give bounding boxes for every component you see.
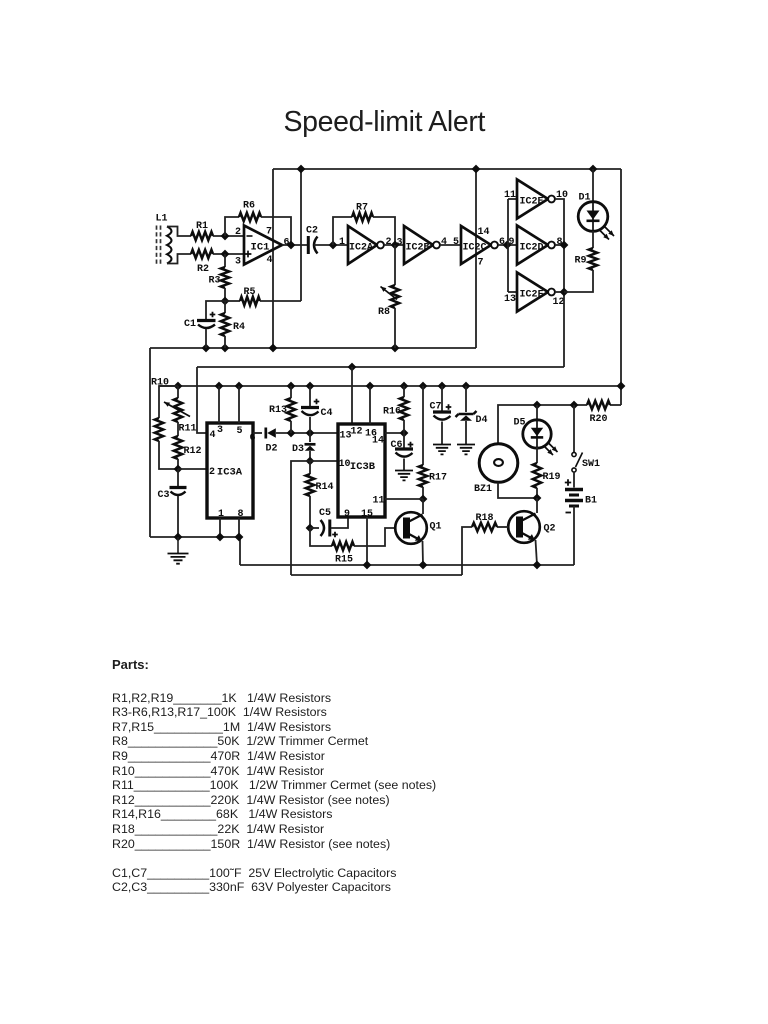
wire right supply bus down to R20 bbox=[620, 169, 622, 405]
node IC3A pin5 bbox=[235, 382, 244, 391]
svg-text:D4: D4 bbox=[475, 415, 487, 426]
polarity + of C4 bbox=[314, 399, 320, 405]
resistor R14 bbox=[306, 474, 314, 496]
svg-text:R7: R7 bbox=[356, 202, 368, 213]
node C5/R14/R15 bbox=[306, 524, 315, 533]
light arrow 2 of D5 bbox=[549, 444, 558, 453]
node IC1 pin6 output bbox=[287, 241, 296, 250]
svg-text:2: 2 bbox=[235, 227, 241, 238]
trimmer R8 bbox=[391, 285, 399, 308]
wire collector of Q1 bbox=[422, 499, 424, 514]
capacitor C2 bbox=[307, 236, 310, 254]
wire IC3A pin6 to D2 bbox=[253, 432, 262, 434]
svg-text:R4: R4 bbox=[233, 322, 245, 333]
wire R10 to R12 bottom node bbox=[159, 441, 178, 469]
wire bus corner to R20 bbox=[610, 404, 621, 406]
svg-text:3: 3 bbox=[235, 256, 241, 267]
node R11 top bbox=[174, 382, 183, 391]
node D4 top bbox=[462, 382, 471, 391]
wire R9 to pin12 node bbox=[564, 270, 593, 292]
node IC1 pin4/ground rail bbox=[269, 344, 278, 353]
svg-text:7: 7 bbox=[266, 226, 272, 237]
capacitor C7 bbox=[433, 410, 451, 413]
wire IC2B output to IC2C input bbox=[440, 244, 461, 246]
wire emitter of Q1 to ground rail bbox=[422, 541, 425, 565]
wire node to C5 bbox=[310, 527, 319, 529]
svg-text:Q2: Q2 bbox=[543, 523, 555, 534]
parts list line bbox=[112, 778, 436, 792]
svg-text:R9: R9 bbox=[574, 255, 586, 266]
ground below C6 bbox=[395, 471, 413, 481]
wire R12 to node bbox=[177, 459, 179, 469]
wire node down to R8 bbox=[394, 245, 396, 285]
wire Q2 base to R18 bbox=[497, 526, 508, 528]
node IC3A pin3 bbox=[215, 382, 224, 391]
wire R2 to IC1 pin3 bbox=[213, 253, 244, 255]
wire R16 down bbox=[403, 420, 405, 433]
svg-text:IC3B: IC3B bbox=[350, 461, 376, 473]
inverter IC2E bbox=[517, 180, 548, 219]
inverter IC2C bbox=[461, 226, 491, 264]
svg-text:11: 11 bbox=[372, 495, 384, 506]
node R13 bottom bbox=[287, 429, 296, 438]
output bubble of IC2E bbox=[548, 196, 555, 203]
wire rail to R16 bbox=[403, 386, 405, 397]
wire node to R5 bbox=[225, 300, 240, 302]
wire L1 bottom to R2 bbox=[167, 254, 191, 264]
svg-text:2: 2 bbox=[385, 237, 391, 248]
svg-text:C5: C5 bbox=[319, 508, 331, 519]
svg-text:6: 6 bbox=[249, 433, 255, 444]
node C3/ground bbox=[174, 533, 183, 542]
wire IC3A pin1 to ground rail bbox=[219, 518, 221, 537]
svg-text:D1: D1 bbox=[578, 192, 590, 203]
wire to IC3B pin12 bbox=[351, 367, 353, 424]
wire node to SW1 bbox=[573, 405, 575, 452]
svg-text:BZ1: BZ1 bbox=[474, 484, 492, 495]
parts list line bbox=[112, 764, 324, 778]
node IC1 pin3 junction bbox=[221, 250, 230, 259]
output bubble of IC2F bbox=[548, 289, 555, 296]
transistor Q1 bbox=[395, 512, 427, 544]
wire D5 to R19 bbox=[536, 447, 538, 463]
svg-text:4: 4 bbox=[441, 237, 447, 248]
svg-text:3: 3 bbox=[396, 237, 402, 248]
wire R13 down bbox=[290, 421, 292, 433]
inverting input minus sign of IC1 bbox=[247, 235, 253, 237]
wire rail to R10 bbox=[159, 386, 178, 418]
wire to IC2E input bbox=[508, 198, 517, 200]
svg-text:IC2E: IC2E bbox=[519, 196, 543, 207]
svg-text:14: 14 bbox=[372, 435, 384, 446]
diode D3 bbox=[305, 443, 316, 446]
node R4/ground rail bbox=[221, 344, 230, 353]
svg-text:C3: C3 bbox=[157, 490, 169, 501]
wire timer rail to IC3A pin4 bbox=[197, 367, 207, 433]
svg-text:Q1: Q1 bbox=[429, 521, 441, 532]
node Q2 emitter/ground rail bbox=[533, 561, 542, 570]
resistor R4 bbox=[221, 313, 229, 336]
wire D4 to ground bbox=[465, 421, 467, 444]
svg-text:R17: R17 bbox=[429, 472, 447, 483]
node R8/ground rail bbox=[391, 344, 400, 353]
parts list line bbox=[112, 734, 368, 748]
node bottom signal rail bbox=[291, 574, 462, 576]
wire pin2 up to R6 bbox=[225, 217, 239, 236]
wire C4 down bbox=[309, 417, 311, 433]
wiper arrow of R11 bbox=[164, 402, 190, 417]
svg-text:R5: R5 bbox=[243, 287, 255, 298]
wire C6 to ground bbox=[403, 459, 405, 471]
wire R15 to Q1 base bbox=[354, 528, 396, 546]
capacitor C6 bbox=[395, 447, 413, 450]
svg-text:4: 4 bbox=[266, 255, 272, 266]
wire D3 to pin10 node bbox=[309, 451, 311, 461]
resistor R7 bbox=[352, 213, 373, 221]
resistor R19 bbox=[533, 463, 541, 488]
output bubble of IC2B bbox=[433, 242, 440, 249]
svg-text:4: 4 bbox=[209, 430, 215, 441]
parts list line bbox=[112, 880, 391, 894]
svg-text:R11: R11 bbox=[178, 423, 196, 434]
wire R6 to IC1 output bbox=[261, 217, 291, 245]
polarity - of B1 bbox=[566, 512, 572, 514]
buzzer BZ1 bbox=[479, 444, 518, 483]
wire R1 to IC1 pin2 bbox=[213, 235, 244, 237]
wire IC3B pin14 to R16/C6 bbox=[385, 432, 404, 434]
wire IC3B pin15 to ground rail bbox=[366, 517, 368, 565]
svg-text:R20: R20 bbox=[589, 414, 607, 425]
node D3/R14/IC3B pin10 bbox=[306, 457, 315, 466]
resistor R16 bbox=[400, 397, 408, 420]
svg-text:B1: B1 bbox=[585, 495, 597, 506]
resistor R5 bbox=[240, 297, 260, 305]
polarity + of B1 bbox=[565, 479, 571, 485]
wire node to C6 bbox=[403, 433, 405, 448]
node IC3B pin16 bbox=[366, 382, 375, 391]
wire node to D3 bbox=[309, 433, 311, 442]
svg-text:R6: R6 bbox=[243, 200, 255, 211]
wire collector of Q2 bbox=[536, 498, 538, 513]
parts list line bbox=[112, 691, 331, 705]
wire V+ to R5 bbox=[300, 169, 302, 301]
inverter IC2D bbox=[517, 226, 548, 265]
svg-text:12: 12 bbox=[350, 426, 362, 437]
wire IC2C output to IC2D input bbox=[498, 244, 517, 246]
node R3/R4/R5/C1 bbox=[221, 297, 230, 306]
parts list line bbox=[112, 720, 331, 734]
capacitor C1 bbox=[197, 319, 216, 322]
wire IC3A pin8 to ground rail bbox=[238, 518, 240, 537]
wire paralleled inverter inputs bbox=[507, 199, 509, 292]
wire rail to C4 bbox=[309, 386, 311, 406]
resistor R17 bbox=[419, 465, 427, 487]
svg-text:IC2F: IC2F bbox=[519, 289, 543, 300]
svg-text:C6: C6 bbox=[390, 440, 402, 451]
wire node to IC3B pin10 bbox=[310, 460, 338, 462]
output bubble of IC2C bbox=[491, 242, 498, 249]
resistor R15 bbox=[332, 542, 354, 550]
node R17/IC3B pin11/Q1 collector bbox=[419, 495, 428, 504]
wire R14 to C5 node bbox=[309, 496, 311, 528]
trimmer R11 bbox=[174, 398, 182, 422]
node V+/R5 junction bbox=[297, 165, 306, 174]
wire R8 to ground rail bbox=[394, 308, 396, 348]
svg-text:D3: D3 bbox=[292, 444, 304, 455]
wire left ground bus bbox=[149, 348, 151, 537]
node IC3A ground rail bbox=[150, 537, 240, 565]
wire C7 to ground bbox=[441, 422, 443, 445]
svg-text:C7: C7 bbox=[429, 401, 441, 412]
ground below C7 bbox=[433, 445, 451, 455]
polarity + of C1 bbox=[210, 312, 216, 318]
wire R11 to R12 bbox=[177, 422, 179, 436]
svg-text:R3: R3 bbox=[208, 275, 220, 286]
wire emitter of Q2 to ground rail bbox=[536, 540, 538, 565]
wire node to D5 bbox=[536, 405, 538, 420]
svg-text:R13: R13 bbox=[269, 405, 287, 416]
wire R7 to IC2A output bbox=[373, 217, 395, 245]
svg-text:R19: R19 bbox=[542, 472, 560, 483]
wire node to R4 bbox=[224, 301, 226, 313]
node timer rail/IC3B pin12 bbox=[348, 363, 357, 372]
node R12/C3/IC3A pin2 bbox=[174, 465, 183, 474]
wire R5 to V+ branch bbox=[260, 300, 301, 302]
parts list line bbox=[112, 822, 324, 836]
svg-text:R8: R8 bbox=[378, 307, 390, 318]
svg-text:D2: D2 bbox=[265, 443, 277, 454]
wire C1 to ground rail bbox=[205, 329, 207, 348]
node pin15/ground rail bbox=[363, 561, 372, 570]
wire IC1 pin7/pin4 supply line bbox=[272, 169, 274, 348]
svg-text:L1: L1 bbox=[155, 213, 167, 224]
parts list line bbox=[112, 705, 327, 719]
node timer top rail bbox=[197, 366, 564, 368]
svg-text:5: 5 bbox=[236, 426, 242, 437]
title Speed-limit Alert bbox=[284, 106, 486, 139]
wiper arrow of R8 bbox=[381, 287, 398, 300]
resistor R18 bbox=[472, 523, 497, 531]
wire D2 to IC3B pin13 bbox=[276, 432, 338, 434]
wire node to C3 bbox=[177, 469, 179, 487]
svg-text:7: 7 bbox=[477, 257, 483, 268]
svg-text:R18: R18 bbox=[475, 513, 493, 524]
svg-text:R14: R14 bbox=[315, 482, 333, 493]
resistor R6 bbox=[239, 213, 261, 221]
battery B1 bbox=[565, 488, 583, 491]
wire node to IC3A pin2 bbox=[178, 468, 207, 470]
wire rail to R17 bbox=[422, 386, 424, 465]
svg-text:IC3A: IC3A bbox=[217, 467, 243, 479]
IC3A timer bbox=[207, 423, 253, 518]
wire IC2F output bbox=[555, 291, 564, 293]
wire rail to C7 bbox=[441, 386, 443, 411]
node pin1/ground bbox=[216, 533, 225, 542]
svg-text:2: 2 bbox=[209, 467, 215, 478]
wire V+ to D1 bbox=[592, 169, 594, 202]
wire D1 to R9 bbox=[592, 231, 594, 248]
wire R3 to R4/R5 node bbox=[224, 288, 226, 301]
wire to IC2F input bbox=[508, 291, 517, 293]
resistor R13 bbox=[287, 398, 295, 421]
node Q1 emitter/ground rail bbox=[419, 561, 428, 570]
wire IC2D output bbox=[555, 244, 564, 246]
transistor Q2 bbox=[508, 511, 540, 543]
svg-text:3: 3 bbox=[217, 425, 223, 436]
node D5 top bbox=[533, 401, 542, 410]
node R13 top bbox=[287, 382, 296, 391]
svg-text:C4: C4 bbox=[320, 408, 332, 419]
output bubble of IC2A bbox=[377, 242, 384, 249]
svg-text:12: 12 bbox=[552, 297, 564, 308]
ground symbol below C3 bbox=[177, 537, 179, 553]
resistor R9 bbox=[589, 248, 597, 270]
node C4/D3 bbox=[306, 429, 315, 438]
resistor R3 bbox=[221, 267, 229, 288]
wire node to R14 bbox=[309, 461, 311, 474]
svg-text:5: 5 bbox=[453, 237, 459, 248]
svg-text:R12: R12 bbox=[183, 446, 201, 457]
svg-text:C2: C2 bbox=[306, 225, 318, 236]
node BZ1/R19/Q2 collector bbox=[533, 494, 542, 503]
node IC2A input/R7 bbox=[329, 241, 338, 250]
wire node to R15 bbox=[310, 528, 332, 546]
svg-text:IC1: IC1 bbox=[251, 242, 270, 254]
svg-text:R2: R2 bbox=[197, 264, 209, 275]
ground bbox=[168, 554, 189, 564]
wire rail to R11 bbox=[177, 386, 179, 398]
wire B1 minus to ground rail bbox=[573, 506, 575, 565]
resistor R20 bbox=[587, 401, 610, 409]
node IC2A output/R8 bbox=[391, 241, 400, 250]
inverter IC2B bbox=[404, 226, 433, 264]
node IC1 pin2 junction bbox=[221, 232, 230, 241]
svg-text:R15: R15 bbox=[335, 554, 353, 565]
node R17 top bbox=[419, 382, 428, 391]
inverter IC2A bbox=[348, 226, 377, 264]
light arrow 2 of D1 bbox=[605, 227, 615, 237]
node ground rail of top section bbox=[150, 347, 476, 349]
svg-text:C1: C1 bbox=[184, 319, 196, 330]
wire L1 top to R1 bbox=[167, 227, 191, 237]
svg-text:IC2B: IC2B bbox=[405, 242, 429, 253]
parts list line bbox=[112, 793, 390, 807]
node C7 top bbox=[438, 382, 447, 391]
wire C2 to IC2A input bbox=[314, 244, 348, 246]
wire R17 to Q1 collector node bbox=[422, 487, 424, 499]
op-amp IC1 bbox=[244, 226, 282, 265]
non-inverting input plus sign of IC1 bbox=[245, 251, 252, 258]
wire R18 down to bottom rail bbox=[462, 527, 472, 575]
IC3B timer bbox=[338, 424, 385, 517]
polarity + of C7 bbox=[446, 404, 452, 410]
svg-text:R16: R16 bbox=[383, 406, 401, 417]
node V+ top supply rail bbox=[273, 168, 621, 170]
parts list line bbox=[112, 837, 390, 851]
node main V+ distribution rail bbox=[159, 385, 621, 387]
parts list heading bbox=[112, 657, 149, 672]
resistor R12 bbox=[174, 436, 182, 459]
svg-text:10: 10 bbox=[338, 459, 350, 470]
capacitor C4 bbox=[301, 406, 319, 409]
svg-text:R1: R1 bbox=[196, 221, 208, 232]
node SW1 top bbox=[570, 401, 579, 410]
resistor R1 bbox=[191, 232, 213, 240]
svg-text:14: 14 bbox=[477, 227, 489, 238]
wire rail to D4 bbox=[465, 386, 467, 412]
node IC2C output bbox=[503, 241, 512, 250]
wire IC3B pin11 to node bbox=[385, 498, 423, 500]
svg-text:1: 1 bbox=[339, 237, 345, 248]
svg-text:6: 6 bbox=[499, 237, 505, 248]
wire IC1 output to C2 bbox=[282, 244, 307, 246]
resistor R10 bbox=[155, 418, 163, 441]
polarity + of C6 bbox=[408, 442, 414, 448]
wire rail to IC3A pin3 bbox=[218, 386, 220, 423]
node R16 top bbox=[400, 382, 409, 391]
svg-text:9: 9 bbox=[508, 237, 514, 248]
svg-text:IC2C: IC2C bbox=[462, 242, 486, 253]
capacitor C3 bbox=[170, 486, 187, 489]
wire IC2A output to IC2B input bbox=[384, 244, 404, 246]
svg-text:D5: D5 bbox=[513, 417, 525, 428]
wire IC2C pin14/pin7 supply line bbox=[475, 169, 477, 348]
wire R4 to ground rail bbox=[224, 336, 226, 348]
light arrow 1 of D5 bbox=[545, 447, 554, 456]
node V+/IC2C junction bbox=[472, 165, 481, 174]
parts list line bbox=[112, 807, 332, 821]
svg-text:IC2D: IC2D bbox=[519, 242, 543, 253]
wire up to R7 bbox=[333, 217, 352, 245]
wire R20 to BZ1 top bbox=[498, 405, 587, 443]
inverter IC2F bbox=[517, 273, 548, 312]
node pin 12 output bbox=[560, 288, 569, 297]
svg-text:IC2A: IC2A bbox=[349, 242, 373, 253]
wire node to C1 bbox=[206, 301, 225, 320]
wire C5 to IC3B pin9 bbox=[331, 518, 348, 528]
wire BZ1 to R19/Q2 node bbox=[498, 483, 537, 499]
node pin8/ground bbox=[235, 533, 244, 542]
resistor R2 bbox=[191, 250, 213, 258]
node C4 top bbox=[306, 382, 315, 391]
svg-text:9: 9 bbox=[344, 509, 350, 520]
wire C3 to ground rail bbox=[177, 496, 179, 537]
wire rail to IC3B pin16 bbox=[369, 386, 371, 424]
polarity + of C5 bbox=[332, 532, 338, 538]
node bottom ground rail bbox=[240, 564, 574, 566]
wire paralleled inverter outputs down to timer rail bbox=[555, 199, 564, 367]
output bubble of IC2D bbox=[548, 242, 555, 249]
svg-text:13: 13 bbox=[504, 294, 516, 305]
wire SW1 to B1 bbox=[573, 472, 575, 488]
diode D2 bbox=[264, 428, 267, 439]
wire node down to bottom rail bbox=[291, 461, 310, 575]
ground below D4 bbox=[457, 445, 475, 455]
wire R19 down bbox=[536, 488, 538, 498]
wire pin3 node down to R3 bbox=[224, 254, 226, 267]
node pin 8 output bbox=[560, 241, 569, 250]
wire rail to R13 bbox=[290, 386, 292, 398]
svg-text:SW1: SW1 bbox=[582, 459, 600, 470]
zener diode D4 bbox=[456, 411, 477, 417]
svg-text:1: 1 bbox=[218, 509, 224, 520]
node V+/D1 junction bbox=[589, 165, 598, 174]
light arrow 1 of D1 bbox=[600, 230, 610, 240]
svg-text:11: 11 bbox=[504, 190, 516, 201]
parts list line bbox=[112, 866, 396, 880]
inductor L1 bbox=[157, 226, 161, 265]
node R16/C6/pin14 bbox=[400, 429, 409, 438]
